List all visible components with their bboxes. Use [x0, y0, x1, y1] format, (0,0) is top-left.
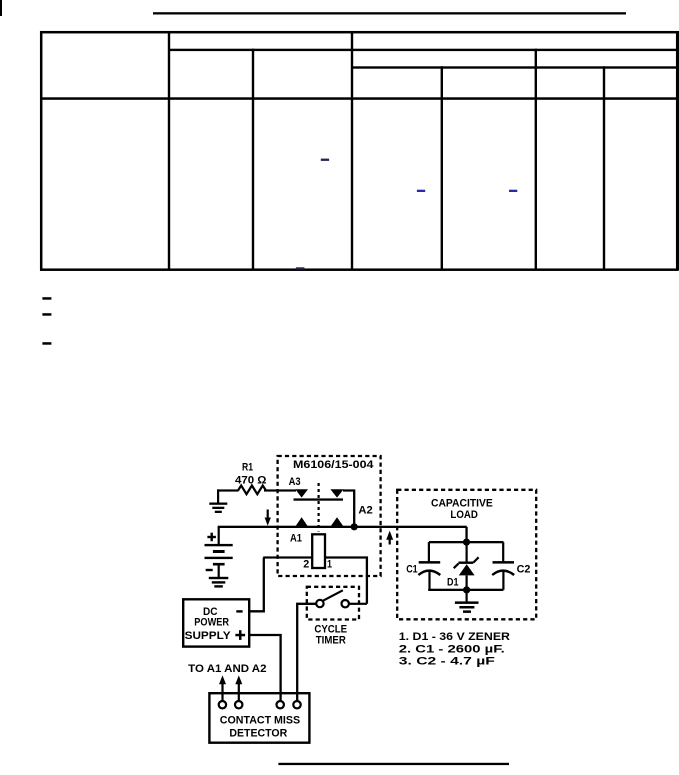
resistor R1: [238, 486, 266, 495]
title underline: [153, 12, 626, 14]
wire into load down: [465, 527, 467, 542]
junction dot load bottom: [463, 586, 470, 593]
junction dot A2: [351, 523, 358, 530]
relay contact bottom-right up triangle: [330, 517, 343, 526]
table column divider x536: [535, 49, 537, 270]
table column divider x604: [603, 66, 605, 270]
svg-text:CYCLE: CYCLE: [314, 623, 347, 635]
svg-text:DETECTOR: DETECTOR: [229, 727, 287, 739]
junction dot load top: [463, 539, 470, 546]
relay contact A1 (bottom-left, up triangle): [295, 517, 308, 526]
svg-text:TIMER: TIMER: [316, 635, 346, 647]
load top bus: [429, 541, 504, 543]
relay contact bar: [294, 498, 344, 500]
ground top-left: [209, 503, 227, 514]
svg-text:2. C1 - 2600 µF.: 2. C1 - 2600 µF.: [399, 643, 505, 655]
svg-text:C2: C2: [517, 563, 531, 575]
terminal 1: [219, 701, 226, 708]
zener diode D1: [454, 542, 479, 590]
link dash bottom of col3: [296, 267, 305, 269]
wire switch right: [349, 603, 367, 605]
scan artifact bar top-left: [0, 0, 2, 16]
current arrow down at A1: [265, 510, 271, 526]
load bottom bus: [428, 589, 503, 591]
svg-text:A2: A2: [358, 505, 372, 517]
svg-text:C1: C1: [406, 563, 418, 575]
link dash cell col5: [509, 190, 517, 192]
wire ground to resistor: [217, 489, 239, 491]
link dash cell col4: [417, 190, 425, 192]
relay contact top-right down triangle: [330, 489, 343, 497]
svg-text:1. D1 - 36 V ZENER: 1. D1 - 36 V ZENER: [399, 631, 510, 643]
svg-text:R1: R1: [242, 461, 253, 473]
table right border fill to edge: [676, 31, 679, 271]
switch S1: [316, 590, 349, 607]
arrow to A1: [219, 675, 226, 701]
cycle timer box dashed: [307, 587, 359, 620]
wire switch left to detector: [297, 604, 316, 701]
relay box M6106/15-004 dashed: [278, 456, 381, 576]
table column divider x253: [252, 49, 254, 270]
label minus terminal: [236, 610, 242, 612]
main wire battery to load: [218, 526, 467, 528]
contact miss detector box: [209, 693, 309, 743]
wire coil pin1 right then down: [325, 558, 367, 604]
arrow to A2: [235, 675, 242, 701]
DC power supply box U1: [183, 599, 249, 646]
wire resistor to relay A3: [264, 489, 296, 491]
list dash 2: [42, 313, 51, 316]
svg-text:D1: D1: [447, 577, 459, 589]
ground load stem: [466, 590, 468, 602]
ground load: [455, 601, 479, 613]
label plus terminal: [235, 630, 245, 640]
current arrow up at load: [386, 531, 393, 545]
terminal 2: [235, 701, 242, 708]
ground battery: [209, 577, 229, 588]
wire DC plus to detector: [250, 635, 281, 701]
list dash 3: [42, 342, 51, 345]
capacitive load box dashed: [397, 490, 536, 620]
battery BT1: [205, 544, 233, 578]
terminal 4: [293, 701, 300, 708]
svg-text:M6106/15-004: M6106/15-004: [293, 459, 374, 471]
svg-text:TO A1 AND A2: TO A1 AND A2: [188, 663, 266, 675]
table body top line: [41, 97, 678, 100]
table header line row1: [169, 49, 678, 51]
wire battery top: [218, 527, 220, 545]
svg-text:LOAD: LOAD: [450, 509, 478, 521]
wire DC minus to coil pin2: [250, 558, 264, 612]
table column divider x352: [351, 32, 353, 270]
svg-text:POWER: POWER: [194, 617, 229, 629]
svg-text:CONTACT MISS: CONTACT MISS: [220, 714, 300, 726]
svg-text:A1: A1: [290, 533, 302, 545]
table outer border: [41, 32, 677, 270]
relay coil: [312, 534, 325, 568]
battery plus sign: [207, 533, 216, 542]
link dash cell col3: [321, 159, 329, 161]
relay contact A3 (top-left, down triangle): [295, 489, 308, 497]
bottom underline: [278, 763, 509, 765]
wire top-right contact to A2: [343, 491, 354, 527]
svg-text:3. C2 - 4.7 µF: 3. C2 - 4.7 µF: [399, 656, 495, 668]
svg-text:2: 2: [303, 558, 309, 570]
relay actuator dashed line: [318, 483, 320, 532]
battery minus sign: [206, 569, 213, 571]
svg-text:A3: A3: [289, 476, 301, 488]
table header line row2 right section: [352, 66, 678, 68]
terminal 3: [277, 701, 284, 708]
svg-text:CAPACITIVE: CAPACITIVE: [431, 497, 493, 509]
capacitor C1: [418, 542, 440, 590]
wire coil pin2 left: [263, 556, 312, 558]
svg-text:SUPPLY: SUPPLY: [185, 630, 232, 642]
table column divider x442: [441, 66, 443, 270]
svg-text:1: 1: [327, 558, 332, 570]
table column divider x169: [168, 32, 170, 270]
capacitor C2: [492, 542, 514, 590]
list dash 1: [42, 297, 51, 300]
ground top-left stem: [217, 489, 219, 503]
